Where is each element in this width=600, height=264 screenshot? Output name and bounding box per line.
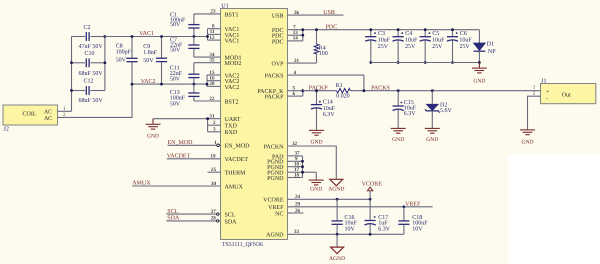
capacitor C10 [86,58,89,67]
connector J1 body [541,84,596,104]
wire C2 right to rail junction [90,36,105,38]
junction C11 bottom VAC2 [193,83,196,86]
svg-text:1.8nF: 1.8nF [143,50,158,56]
pin names left [225,12,251,225]
pin names right [257,14,284,239]
svg-text:R1: R1 [336,83,343,89]
junction C9 bottom [160,83,163,86]
svg-text:100pF: 100pF [116,50,132,56]
capacitor C1 [188,14,199,37]
svg-text:C10: C10 [85,51,95,57]
svg-text:6.3V: 6.3V [378,227,391,233]
svg-text:VCORE: VCORE [263,198,284,204]
svg-text:BST1: BST1 [225,12,239,18]
svg-text:VACDET: VACDET [167,154,191,160]
svg-text:10V: 10V [412,226,423,232]
wire EN_MOD pin 1 [168,144,221,147]
svg-text:C3: C3 [378,31,385,37]
wire PACKN pin 32 [288,146,337,179]
wire USB pin 36 [288,14,344,16]
wire PDC bus pins 13 14 [288,30,303,41]
analog ground AGND bottom [331,247,344,254]
svg-text:PDC: PDC [326,25,338,31]
svg-text:PACKN: PACKN [264,144,284,150]
wire VCORE pin 24 [288,198,371,200]
svg-text:PACKS: PACKS [371,85,390,91]
svg-text:25V: 25V [378,44,389,50]
wire C12 right stub [90,90,105,92]
svg-text:Out: Out [562,93,571,99]
svg-text:SCL: SCL [167,209,178,215]
wire J2 pin1 to left rail [58,110,72,112]
junction C2 right [104,35,107,38]
svg-text:AMUX: AMUX [225,184,244,190]
junction C3 bottom [369,61,372,64]
diode D1 [474,30,486,63]
wire C3-D1 bottom rail [371,62,480,64]
svg-text:50V: 50V [170,77,181,83]
capacitor C9 [156,37,167,85]
svg-text:10uF: 10uF [432,38,445,44]
svg-text:0.020: 0.020 [336,93,350,99]
svg-text:AGND: AGND [328,186,344,192]
svg-text:USB: USB [323,10,335,16]
pin numbers left [209,9,217,222]
svg-text:RXD: RXD [225,130,238,136]
svg-text:EN_MOD: EN_MOD [168,140,194,146]
junction PGND 17 [301,171,304,174]
junction VAC2 coil [131,83,134,86]
wire PACKP pin 6 bus [288,91,303,96]
svg-text:6.3V: 6.3V [404,111,417,117]
polarity dot C17 [374,216,376,218]
svg-text:PACKP: PACKP [265,95,284,101]
svg-text:VREF: VREF [405,201,421,207]
svg-text:68nF 50V: 68nF 50V [79,98,104,104]
wire UART bus [208,119,221,132]
svg-text:C12: C12 [84,79,94,85]
ground GND d1 [472,63,487,73]
svg-text:AC: AC [44,116,52,122]
capacitor C3 [365,30,376,63]
junction PGND 10 [301,165,304,168]
wire right rail vertical [104,37,106,91]
svg-text:U1: U1 [221,3,228,9]
wire NC pin 26 stub [288,212,304,214]
junction VCORE c17 [369,198,372,201]
junction C9 top [160,35,163,38]
svg-text:GND: GND [310,186,322,192]
svg-text:PACKP: PACKP [309,85,328,91]
wire VAC1 rail left segment [72,36,86,38]
ground GND d2 [425,128,440,133]
wire AGND drop [336,234,338,247]
wire UART pin 31 [153,118,221,120]
capacitor C18 [398,207,409,235]
svg-text:25V: 25V [459,44,470,50]
svg-text:50V: 50V [116,58,127,64]
resistor R1 [337,89,351,93]
resistor R4 [314,30,319,63]
svg-text:10uF: 10uF [378,38,391,44]
capacitor C13 [188,84,199,101]
svg-text:C5: C5 [432,31,439,37]
ground GND uart [146,119,161,129]
polarity dot C14 [319,101,321,103]
capacitor C2 [86,32,89,41]
zener diode D2 [425,91,440,128]
wire AGND rail pin 33 [288,233,404,235]
junction PGND 9 [301,160,304,163]
svg-text:GND: GND [426,137,438,143]
svg-text:VCORE: VCORE [362,181,383,187]
svg-text:25V: 25V [405,44,416,50]
capacitor C14 [311,91,322,130]
svg-text:AGND: AGND [329,256,345,262]
svg-text:TS51111_QFN36: TS51111_QFN36 [222,242,263,248]
svg-text:AMUX: AMUX [132,181,151,187]
svg-text:1: 1 [533,85,536,91]
junction AGND c16 [336,233,339,236]
svg-text:NP: NP [488,49,496,55]
wire VAC1 rail [105,36,208,38]
svg-text:J2: J2 [4,127,9,133]
svg-text:100: 100 [319,51,328,57]
junction VREF c18 [403,205,406,208]
junction PACKS pin4 drop [363,89,366,92]
svg-text:68nF 50V: 68nF 50V [79,71,104,77]
junction VAC2 bus [206,83,209,86]
junction PDC bus mid [301,34,304,37]
svg-text:50V: 50V [170,47,181,53]
svg-text:VAC1: VAC1 [139,31,154,37]
svg-text:PACKS: PACKS [265,74,284,80]
svg-text:VAC2: VAC2 [141,79,156,85]
junction C10 right [104,61,107,64]
junction VAC1 bus [206,35,209,38]
junction C10 left [70,61,73,64]
wire PACKP_K pin 5 [288,90,303,92]
power port VCORE [367,187,373,199]
svg-text:6.3V: 6.3V [323,112,336,118]
svg-text:10uF: 10uF [405,38,418,44]
wire SCL pin 27 [166,213,220,215]
svg-text:THERM: THERM [225,171,247,177]
capacitor C11 [188,63,199,84]
svg-text:COIL: COIL [23,112,37,118]
svg-text:NC: NC [275,211,283,217]
ground GND c14 [309,130,324,135]
svg-text:10V: 10V [345,226,356,232]
svg-text:SCL: SCL [225,213,236,219]
wire PDC rail [288,29,480,31]
capacitor C8 [126,37,137,85]
svg-text:C14: C14 [323,99,333,105]
svg-text:5.6V: 5.6V [440,108,453,114]
svg-text:J1: J1 [541,79,546,85]
wire C10 left stub [72,62,86,64]
IC U1 body [221,9,288,240]
svg-text:AGND: AGND [266,233,284,239]
wire C10 right stub [90,62,105,64]
svg-text:GND: GND [521,140,533,146]
capacitor C17 [365,199,376,234]
polarity dot C6 [456,32,458,34]
svg-text:C8: C8 [116,43,123,49]
svg-text:GND: GND [147,133,159,139]
junction C12 left [70,89,73,92]
wire VAC2 rail [132,83,207,85]
wire J2 pin2 long run [58,84,133,117]
wire VAC2 bus [207,75,221,86]
junction C6 top [451,28,454,31]
svg-text:47nF 50V: 47nF 50V [79,44,104,50]
ground GND c15 [391,128,406,133]
wire VREF pin 29 [288,206,433,208]
junction C6 bottom [451,61,454,64]
wire BST1 pin 23 [194,13,221,15]
junction UART bus [206,117,209,120]
wire MOD2 pin 35 [194,62,221,64]
wire left rail vertical [71,37,73,112]
svg-text:PGND: PGND [267,176,284,182]
svg-text:SDA: SDA [225,219,238,225]
svg-text:GND: GND [310,139,322,145]
junction PACKP bus [301,89,304,92]
svg-text:50V: 50V [170,22,181,28]
capacitor C16 [332,199,343,234]
svg-text:OVP: OVP [271,62,284,68]
svg-text:AC: AC [44,110,52,116]
capacitor C6 [447,30,458,63]
svg-text:C2: C2 [84,25,91,31]
svg-text:C6: C6 [460,31,467,37]
svg-text:10uF: 10uF [459,38,472,44]
svg-text:GND: GND [473,78,485,84]
junction D2 top [431,89,434,92]
svg-text:VAC2: VAC2 [225,85,240,91]
capacitor C7 [188,37,199,58]
svg-text:EN_MOD: EN_MOD [225,144,251,150]
wire PACKS rail to J1 [351,90,541,92]
svg-text:BST2: BST2 [225,99,239,105]
junction C3 top [369,28,372,31]
svg-text:50V: 50V [170,101,181,107]
svg-text:10uF: 10uF [323,106,336,112]
polarity dot C5 [429,32,431,34]
svg-text:PDC: PDC [272,39,284,45]
junction C15 top [397,89,400,92]
junction C4 bottom [397,61,400,64]
junction C4 top [397,28,400,31]
junction C14 top [315,89,318,92]
junction D1 bottom [478,61,481,64]
analog ground AGND packn [330,179,343,186]
capacitor C15 [393,91,404,128]
junction C8 top [131,35,134,38]
polarity dot C15 [401,102,403,104]
junction PDC bus top [301,28,304,31]
svg-text:D1: D1 [487,42,494,48]
wire AMUX pin 30 [132,185,220,187]
svg-text:C4: C4 [405,31,412,37]
wire PAD PGND bus [288,156,317,180]
svg-text:VACDET: VACDET [225,157,249,163]
capacitor C12 [86,86,89,95]
capacitor C4 [393,30,404,63]
junction C1 bottom VAC1 [193,35,196,38]
wire PACKS pin 4 [288,75,364,91]
junction AGND c17 [369,233,372,236]
ground GND pgnd [309,180,324,185]
junction C5 bottom [424,61,427,64]
wire THERM pin 25 [208,171,221,173]
svg-text:25V: 25V [432,44,443,50]
wire J1 pin 2 [528,96,541,129]
svg-text:UART: UART [225,117,241,123]
junction C5 top [424,28,427,31]
white page corner [509,155,600,264]
ground GND j1 [520,130,535,135]
svg-text:USB: USB [272,14,284,20]
pin numbers right [292,10,301,235]
connector J2 COIL body [3,105,58,125]
polarity dot C3 [374,32,376,34]
svg-text:VAC1: VAC1 [225,39,240,45]
svg-text:+: + [546,89,549,95]
svg-text:VREF: VREF [268,205,284,211]
wire MOD1 pin 34 [194,56,221,58]
wire BST2 pin 22 [194,100,221,102]
wire VACDET pin 19 [167,158,221,160]
svg-text:GND: GND [392,137,404,143]
capacitor C5 [420,30,431,63]
svg-text:MOD2: MOD2 [225,61,242,67]
polarity dot C4 [401,32,403,34]
svg-text:50V: 50V [143,58,154,64]
junction R4 top [315,28,318,31]
junction VCORE c16 [336,198,339,201]
svg-text:TXD: TXD [225,124,238,130]
wire OVP pin 21 [288,62,317,64]
wire C12 left stub [72,90,86,92]
wire VAC1 bus [208,29,221,40]
wire SDA pin 28 [166,220,220,222]
svg-text:-: - [546,96,548,102]
wire PACKP rail to R1 [303,90,337,92]
svg-text:SDA: SDA [167,216,180,222]
